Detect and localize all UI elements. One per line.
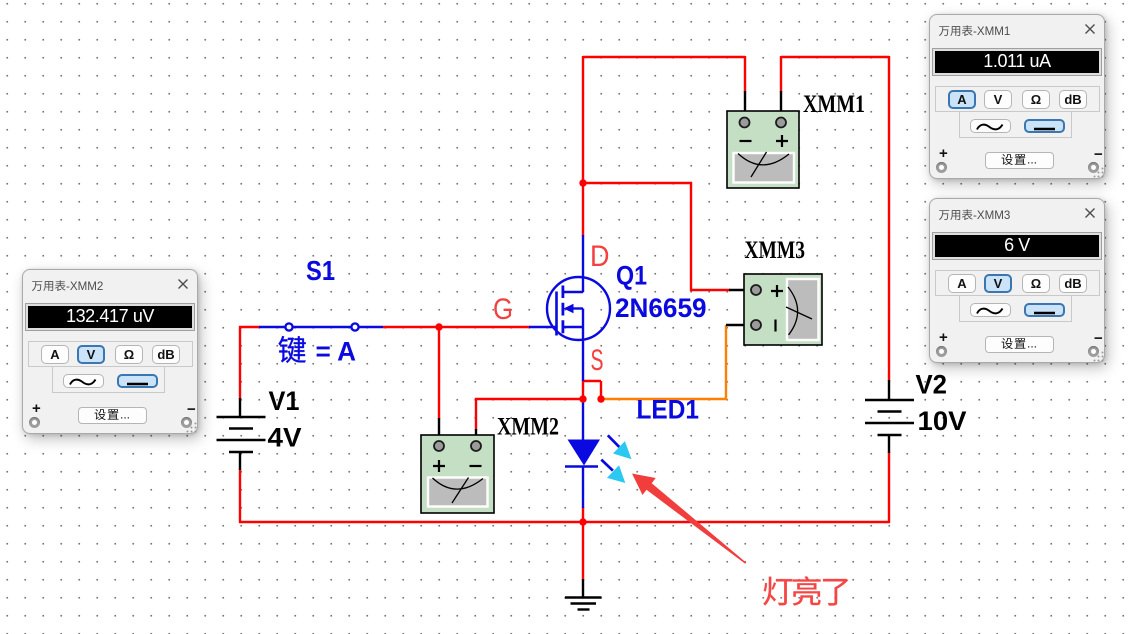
wire: XMM2 terminal lead stubs (black) [439,418,476,446]
multimeter instrument icon XMM1 [727,111,799,188]
LED light emission arrow 2 [601,460,625,483]
svg-text:2N6659: 2N6659 [615,293,707,323]
wire: bottom return net [239,521,890,523]
node drain branch node junction dot [579,179,586,186]
wire: XMM1 terminal lead stubs (black) [745,91,781,122]
svg-text:-XMM1: -XMM1 [973,25,1010,38]
LED1 cathode wire [582,467,584,508]
label key = A [278,336,356,366]
multimeter instrument icon XMM2 [421,435,494,513]
switch S1 [259,323,383,330]
wire: orange net from source-bump node to XMM3 - lead [601,325,726,400]
instrument panel window -XMM2 [22,269,198,434]
LED light emission arrow 1 [608,435,632,459]
svg-text:10V: 10V [918,406,967,436]
wire: V1 + terminal to switch S1 left pin [239,326,260,328]
wire: XMM2 - lead up and over to source node [475,398,583,430]
multimeter instrument icon XMM3 [744,274,822,345]
svg-text:-XMM2: -XMM2 [66,280,103,293]
battery V2 [865,380,914,453]
wire: switch S1 right pin to Q1 gate pin [383,326,530,328]
svg-text:4V: 4V [268,423,302,453]
wire: source pin jog (red bump S to source node and to LED node) [582,380,601,399]
wire: XMM1 right lead vertical (red part) [780,56,782,92]
wire: V1 top lead vertical (red part) [239,326,241,399]
svg-text:V2: V2 [916,370,948,400]
svg-text:...: ... [1027,153,1037,166]
instrument panel window -XMM3 [929,198,1105,363]
wire: LED cathode to bottom net (red part) [582,507,584,522]
svg-text:...: ... [120,408,130,421]
battery V1 [217,398,266,470]
svg-text:S1: S1 [306,255,335,286]
LED D1 (LED1) anode wire [582,398,584,441]
LED1 cathode bar [565,465,598,468]
svg-text:XMM1: XMM1 [803,91,865,118]
wire: gate node down to XMM2 + lead (red part) [438,326,440,419]
svg-text:XMM2: XMM2 [497,414,559,441]
svg-text:LED1: LED1 [637,395,700,425]
wire: top net from XMM1 right lead to V2 column [781,56,889,58]
wire: branch from drain node to XMM3 + terminal [583,183,730,290]
svg-text:XMM3: XMM3 [745,237,806,264]
annotation text: the lamp is lit [763,576,848,605]
transistor Q1 2N6659 MOSFET [529,235,610,381]
wire: V2 - terminal down to bottom net [888,452,890,523]
instrument panel window -XMM1 [929,14,1105,179]
annotation arrow pointing at LED [632,474,746,564]
wire: top net from drain column to XMM1 left lead [583,56,745,58]
svg-text:S: S [591,344,604,377]
LED1 body triangle [568,440,601,466]
ground [565,579,602,610]
wire: XMM1 left lead vertical (red part) [744,56,746,92]
svg-text:...: ... [1027,337,1037,350]
svg-text:= A: = A [316,337,357,367]
node bottom net node junction dot [579,518,586,525]
svg-text:Q1: Q1 [616,261,647,291]
wire: right vertical from top net down to V2 + terminal [888,56,890,381]
svg-text:D: D [590,240,610,273]
wire: V1 bottom lead vertical (red part) [239,469,241,523]
svg-text:G: G [493,293,513,326]
wire: bottom net to ground lead (red part) [582,522,584,580]
svg-text:V1: V1 [269,386,300,416]
node source node junction dot [579,395,586,402]
wire: drain column vertical from top net to Q1 drain pin [582,56,584,236]
node source-bump node junction dot [597,395,604,402]
wire: XMM3 terminal lead stubs (black) [726,290,749,325]
svg-text:-XMM3: -XMM3 [973,209,1010,222]
node gate node junction dot [435,323,442,330]
